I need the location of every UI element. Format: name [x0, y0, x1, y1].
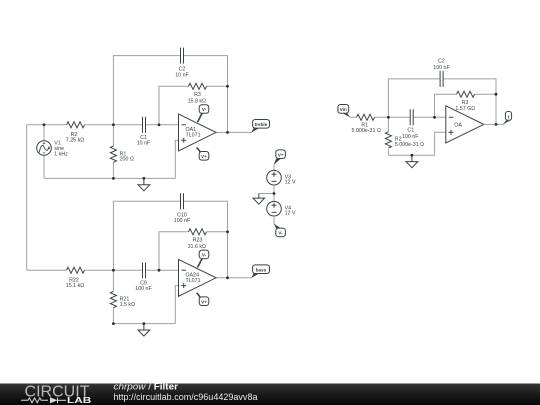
resistor R2 (right, vertical): [385, 132, 391, 148]
capacitor C2: [181, 48, 184, 64]
capacitor C10: [181, 193, 184, 209]
svg-text:R3: R3: [194, 92, 201, 98]
svg-text:1.57 GΩ: 1.57 GΩ: [455, 106, 475, 112]
node V- flag (supply): [274, 224, 286, 237]
junction: R1/R2/C1/C2 node (right): [387, 116, 390, 119]
junction: R3 tee on input net (right): [433, 116, 436, 119]
svg-text:7.25 kΩ: 7.25 kΩ: [66, 137, 84, 143]
junction: ground tap (right): [411, 154, 414, 157]
resistor R1: [110, 146, 116, 162]
svg-text:OA: OA: [454, 123, 462, 129]
V+ power flag of OA1: [197, 147, 209, 160]
resistor R1 (right): [357, 114, 375, 120]
svg-text:100 nF: 100 nF: [402, 134, 419, 140]
wire: main net Vin->R1->junction->C1->opamp minus: [350, 116, 446, 118]
wire: R23 feedback loop: [159, 232, 228, 270]
svg-text:http://circuitlab.com/c96u4429: http://circuitlab.com/c96u4429avv8a: [114, 392, 258, 402]
ground (right): [406, 155, 418, 168]
junction: R23/C10 feedback join: [226, 230, 229, 233]
junction: treble output node: [226, 131, 229, 134]
wire: opamp plus input to ground net: [175, 140, 178, 178]
V+ power flag of OA24: [197, 293, 209, 306]
wire: C10 feedback loop: [113, 201, 227, 277]
junction: bass output node: [226, 276, 229, 279]
wire: R2 leads (right): [387, 117, 389, 155]
wire: V4 to V- flag: [273, 216, 275, 224]
capacitor C1 (right): [410, 109, 413, 125]
logo resistor-diode glyph: [21, 398, 66, 404]
junction: R1 bottom on ground net: [112, 177, 115, 180]
svg-text:V+: V+: [201, 154, 207, 159]
wire: to ground branch: [259, 193, 274, 195]
wire: opamp output (right): [484, 123, 504, 125]
svg-text:TL071: TL071: [186, 132, 201, 138]
wire: opamp output to bass flag: [216, 277, 252, 279]
resistor R23: [189, 229, 207, 235]
wire: bottom net + plus input (right): [388, 132, 445, 155]
junction: ground tap (bass): [143, 322, 146, 325]
svg-text:100 nF: 100 nF: [135, 286, 152, 292]
logo diode triangle: [51, 398, 58, 404]
node V+ flag (supply): [274, 150, 286, 165]
voltage source V1 sine: [37, 141, 52, 156]
resistor R22: [67, 267, 85, 273]
node: treble output flag: [251, 120, 270, 133]
capacitor C9: [143, 262, 146, 278]
junction: R21 bottom on ground net (bass): [112, 322, 115, 325]
svg-text:10 nF: 10 nF: [175, 72, 189, 78]
V- power flag of OA1: [197, 105, 208, 122]
resistor R2: [67, 122, 85, 128]
wire: bottom ground net (bass): [113, 323, 175, 325]
node Vin input flag: [338, 105, 351, 118]
op-amp OA1: [179, 114, 217, 151]
svg-text:1 kHz: 1 kHz: [54, 151, 68, 157]
wire: V3 to V4: [273, 185, 275, 201]
junction dot supply mid: [273, 192, 276, 195]
svg-text:12 V: 12 V: [285, 180, 296, 186]
svg-text:5.000e-31 Ω: 5.000e-31 Ω: [395, 142, 424, 148]
wire: R3 feedback loop: [159, 86, 228, 125]
svg-text:Vin: Vin: [340, 107, 347, 112]
junction: R3/C2 feedback join (right): [495, 93, 498, 96]
svg-text:treble: treble: [255, 122, 268, 127]
svg-text:LAB: LAB: [67, 395, 91, 405]
node t output flag: [503, 112, 512, 125]
wire: R21 leads: [112, 270, 114, 323]
wire: V+ to V3: [273, 164, 275, 171]
wire: main input net V1->R2->nodeA->C1->opamp minus: [27, 124, 179, 126]
wire: bottom ground net: [44, 177, 175, 179]
svg-text:100 nF: 100 nF: [433, 65, 450, 71]
svg-text:chrpow / Filter: chrpow / Filter: [114, 382, 179, 392]
voltage source V4: [267, 201, 282, 216]
svg-text:100 nF: 100 nF: [174, 218, 191, 224]
svg-text:1.5 kΩ: 1.5 kΩ: [120, 302, 135, 308]
svg-text:V+: V+: [278, 152, 284, 157]
resistor R3: [189, 83, 207, 89]
voltage source V3: [267, 170, 282, 185]
svg-text:15.1 kΩ: 15.1 kΩ: [66, 283, 84, 289]
junction: node A2 (R22/R21/C9/C10): [112, 269, 115, 272]
svg-text:C2: C2: [438, 59, 445, 65]
op-amp OA: [446, 106, 484, 143]
svg-text:15.8 kΩ: 15.8 kΩ: [188, 99, 206, 105]
wire: C2 feedback loop: [113, 56, 227, 133]
junction: R3 tee on input net: [158, 123, 161, 126]
svg-text:bass: bass: [256, 268, 267, 273]
junction: node A (R2/R1/C1/C2): [112, 123, 115, 126]
wire: left rail down to bass circuit: [26, 125, 28, 270]
ground (treble circuit): [138, 178, 150, 190]
wire: C2 feedback loop (right): [388, 79, 496, 125]
capacitor C1: [143, 117, 146, 133]
junction: R23 tee on input net (bass): [158, 269, 161, 272]
wire: R3 feedback loop (right): [435, 94, 497, 117]
svg-text:31.6 kΩ: 31.6 kΩ: [188, 244, 206, 250]
capacitor C2 (right): [440, 71, 443, 87]
svg-text:R23: R23: [193, 238, 203, 244]
svg-text:TL071: TL071: [186, 278, 201, 284]
junction: V1 top node: [43, 123, 46, 126]
svg-text:5.000e-31 Ω: 5.000e-31 Ω: [352, 128, 381, 134]
junction: output node t: [495, 123, 498, 126]
svg-text:C1: C1: [407, 127, 414, 133]
node: bass output flag: [251, 265, 270, 278]
wire: main input net rail->R22->nodeA2->C9->opamp minus: [27, 269, 179, 271]
svg-text:10 nF: 10 nF: [137, 140, 151, 146]
svg-text:12 V: 12 V: [285, 211, 296, 217]
svg-text:V-: V-: [278, 231, 283, 236]
wire: opamp output to treble flag: [216, 131, 252, 133]
ground (supply): [253, 194, 265, 205]
wire: R1 leads: [112, 125, 114, 179]
V- power flag of OA24: [197, 250, 208, 267]
svg-text:200 Ω: 200 Ω: [120, 157, 134, 163]
junction: R3/C2 feedback join: [226, 85, 229, 88]
ground (bass circuit): [138, 324, 150, 336]
resistor R3 (right): [457, 91, 475, 97]
wire: opamp plus input to ground net (bass): [175, 286, 178, 324]
op-amp OA24: [179, 259, 217, 296]
svg-text:V-: V-: [202, 253, 207, 258]
resistor R21: [110, 291, 116, 307]
wire: V1 top and bottom leads: [43, 125, 45, 179]
svg-text:V+: V+: [201, 299, 207, 304]
junction: ground tap (treble): [143, 177, 146, 180]
svg-text:V-: V-: [202, 107, 207, 112]
